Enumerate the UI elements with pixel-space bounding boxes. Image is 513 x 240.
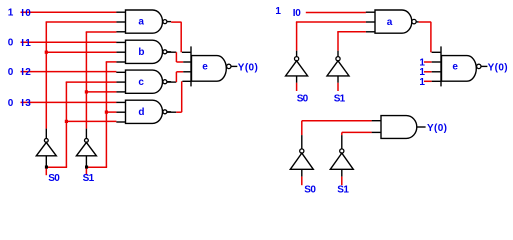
- wire input I0: [21, 11, 117, 13]
- wire gate a output to e pin 1: [171, 22, 181, 52]
- svg-text:1: 1: [275, 6, 281, 17]
- pin stub inverter U6 output: [341, 135, 343, 149]
- svg-text:0: 0: [8, 98, 14, 109]
- wire S1-inverted right: [337, 32, 366, 51]
- wire input I1: [21, 41, 117, 43]
- nand gate a: [116, 10, 171, 33]
- pin stub inverter U1 output: [45, 129, 47, 139]
- wire gate c output to e pin 3: [167, 72, 184, 82]
- pin jog e input 2: [183, 61, 191, 63]
- wire constant 1 stub: [424, 80, 432, 82]
- wire inverter U6 to and gate pin 2: [342, 132, 372, 135]
- wire S0 stub bottom: [301, 177, 303, 186]
- inverter U1 (S0): [36, 139, 56, 166]
- junction S0-inverted to gate b: [45, 51, 48, 54]
- wire S0 stub: [45, 169, 47, 176]
- wire S1 stub right top: [337, 83, 339, 91]
- pin jog right e input 1: [432, 51, 442, 53]
- svg-text:Y(0): Y(0): [427, 123, 447, 134]
- wire gate d output to e pin 4: [167, 81, 182, 112]
- svg-text:I3: I3: [21, 98, 31, 109]
- pin junction U2 input: [85, 166, 88, 169]
- svg-text:S0: S0: [297, 93, 309, 104]
- inverter U2 (S1): [76, 139, 96, 166]
- svg-text:1: 1: [419, 77, 425, 88]
- pin junction U1 input: [45, 166, 48, 169]
- pin jog right e input: [432, 71, 442, 73]
- pin jog e input 4: [182, 80, 191, 82]
- wire S1 vertical: [87, 62, 116, 167]
- inverter U4 (S1 right top): [327, 57, 349, 83]
- svg-text:I2: I2: [21, 67, 31, 78]
- svg-text:I0: I0: [21, 8, 31, 19]
- svg-text:e: e: [452, 61, 458, 72]
- pin stub inverter U3 output: [296, 51, 298, 57]
- svg-text:S1: S1: [334, 93, 346, 104]
- wire S0 stub right top: [296, 83, 298, 91]
- wire S1-inverted vertical: [86, 32, 117, 129]
- junction S1-inverted to gate c: [85, 90, 88, 93]
- svg-text:0: 0: [8, 67, 14, 78]
- svg-text:0: 0: [8, 38, 14, 49]
- wire S0-inverted right: [296, 22, 366, 51]
- wire inverter U5 to and gate pin 1: [302, 121, 372, 135]
- nand gate e right: [441, 46, 487, 86]
- svg-text:I0: I0: [293, 8, 301, 19]
- svg-text:b: b: [138, 47, 144, 58]
- junction S1 to gate d: [105, 111, 108, 114]
- svg-text:S1: S1: [337, 184, 349, 195]
- inverter U6 (S1 bottom): [330, 149, 353, 177]
- inverter U3 (S0 right top): [286, 57, 308, 83]
- svg-text:c: c: [138, 77, 144, 88]
- wire S0 vertical: [47, 82, 116, 167]
- nand gate b: [116, 40, 171, 63]
- wire input I0 right: [306, 12, 366, 14]
- pin stub inverter U4 output: [337, 51, 339, 57]
- nand gate c: [116, 70, 171, 93]
- wire constant 1 stub: [424, 71, 432, 73]
- svg-text:Y(0): Y(0): [488, 62, 508, 73]
- svg-text:I1: I1: [21, 38, 31, 49]
- wire gate b output to e pin 2: [167, 52, 184, 62]
- pin stub inverter U2 output: [85, 129, 87, 139]
- pin jog right e input: [432, 80, 442, 82]
- svg-text:a: a: [138, 17, 144, 28]
- svg-text:S1: S1: [83, 173, 95, 184]
- svg-text:1: 1: [8, 8, 14, 19]
- svg-text:S0: S0: [48, 173, 60, 184]
- wire S1 stub: [85, 169, 87, 176]
- nand gate e: [191, 46, 237, 86]
- svg-text:e: e: [202, 61, 208, 72]
- wire gate a output to e pin 1 right: [419, 22, 432, 52]
- pin jog right e input: [432, 61, 442, 63]
- wire S0-inverted vertical: [46, 22, 117, 129]
- wire S1 stub bottom: [341, 177, 343, 186]
- svg-text:d: d: [138, 107, 144, 118]
- pin jog e input 3: [183, 71, 191, 73]
- pin stub inverter U5 output: [301, 135, 303, 149]
- wire constant 1 stub: [424, 61, 432, 63]
- svg-text:Y(0): Y(0): [238, 62, 258, 73]
- pin jog e input 1: [182, 51, 192, 53]
- wire input I3: [21, 101, 117, 103]
- inverter U5 (S0 bottom): [290, 149, 313, 177]
- nand gate d: [116, 100, 171, 123]
- svg-text:a: a: [387, 17, 393, 28]
- svg-text:S0: S0: [304, 184, 316, 195]
- nand gate a right: [366, 10, 419, 33]
- and gate Y: [372, 116, 426, 139]
- junction S0 to gate d: [65, 120, 68, 123]
- wire input I2: [21, 71, 117, 73]
